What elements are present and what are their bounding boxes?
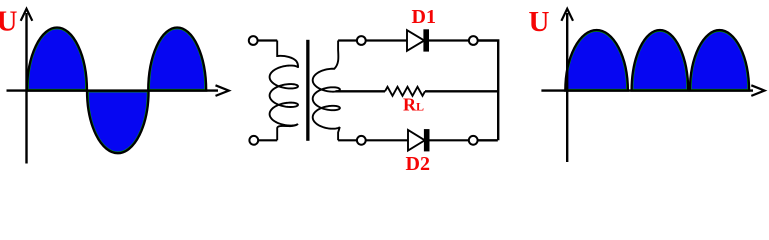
svg-text:D2: D2 <box>406 153 430 171</box>
right vertical axis arrowhead <box>561 9 573 21</box>
node circle bottom branch right <box>469 136 478 145</box>
node circle top branch left <box>357 36 366 45</box>
right waveform hump 1 <box>565 30 628 91</box>
wire node to diode D1 <box>366 39 407 41</box>
wire top right corner <box>478 41 499 141</box>
transformer primary winding <box>270 41 298 141</box>
left waveform hump 3 (positive) <box>148 28 206 91</box>
right waveform hump 2 <box>632 30 689 91</box>
resistor RL zigzag <box>385 87 425 96</box>
wire secondary top to node circle <box>338 39 357 41</box>
wire diode D2 to node circle <box>430 139 469 141</box>
wire top-left terminal to primary coil <box>258 39 278 41</box>
transformer secondary winding <box>313 41 340 141</box>
wire bottom right corner <box>478 139 498 141</box>
diode D2 <box>408 129 430 151</box>
left waveform hump 1 (positive) <box>27 28 87 91</box>
wire node to diode D2 <box>366 139 409 141</box>
node circle top branch right <box>469 36 478 45</box>
svg-text:U: U <box>0 6 18 38</box>
svg-text:RL: RL <box>403 95 424 115</box>
wire resistor to right rail <box>425 90 499 92</box>
wire secondary bottom to node circle <box>338 139 357 141</box>
left vertical axis <box>25 13 27 164</box>
left horizontal axis <box>7 89 219 91</box>
circuit: primary terminal top-left <box>249 36 258 45</box>
right vertical axis <box>566 13 568 162</box>
left horizontal axis arrowhead <box>216 85 229 96</box>
circuit: primary terminal bottom-left <box>249 136 258 145</box>
node circle bottom branch left <box>357 136 366 145</box>
right waveform hump 3 <box>690 30 749 91</box>
right horizontal axis arrowhead <box>751 85 764 96</box>
wire bottom-left terminal to primary coil <box>258 139 277 141</box>
left waveform hump 2 (negative) <box>87 91 149 154</box>
left vertical axis arrowhead <box>21 9 33 21</box>
svg-text:U: U <box>529 6 550 38</box>
svg-text:D1: D1 <box>412 6 436 28</box>
right horizontal axis <box>541 89 753 91</box>
transformer core <box>306 40 309 141</box>
wire diode D1 to node circle <box>429 39 469 41</box>
center tap wire to resistor <box>336 90 386 92</box>
diode D1 <box>407 29 429 51</box>
